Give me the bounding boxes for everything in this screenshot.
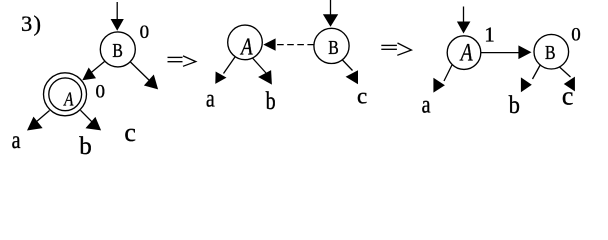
wire B1 to c	[130, 62, 152, 83]
arrowhead A1-a	[27, 117, 43, 131]
svg-text:A: A	[459, 39, 473, 66]
svg-text:b: b	[266, 88, 276, 115]
svg-text:B: B	[545, 43, 556, 64]
arrowhead A1-b	[86, 117, 102, 130]
svg-text:b: b	[509, 92, 520, 119]
svg-text:B: B	[328, 38, 339, 59]
wire B3 to b	[533, 65, 541, 79]
arrowhead B3-c	[564, 77, 575, 92]
svg-text:A: A	[239, 33, 253, 60]
node A1 inner circle	[49, 78, 82, 111]
arrowhead B2-c	[346, 70, 358, 84]
arrowhead B1-c	[144, 75, 158, 90]
arrowhead A3-B3	[518, 45, 531, 59]
svg-text:c: c	[124, 118, 136, 147]
node A2 circle	[228, 25, 263, 60]
wire incoming arrow to node B2	[330, 0, 332, 16]
arrowhead incoming A3	[457, 22, 471, 34]
wire A2 to b	[253, 58, 267, 73]
arrowhead A3-a	[433, 78, 445, 93]
node B1 circle	[100, 32, 135, 67]
arrowhead incoming B2	[323, 14, 338, 26]
svg-text:0: 0	[96, 81, 106, 102]
implies arrow 1: chevron	[183, 56, 196, 66]
node B2 circle	[314, 28, 349, 63]
svg-text:1: 1	[484, 22, 495, 46]
svg-text:c: c	[357, 84, 367, 109]
node A1 outer circle (double)	[44, 73, 87, 116]
wire B3 to c	[560, 67, 571, 77]
arrowhead dashed B2-A2	[263, 38, 275, 50]
svg-text:0: 0	[571, 24, 581, 45]
svg-text:A: A	[63, 88, 74, 110]
svg-text:0: 0	[140, 22, 150, 43]
arrowhead B1-A1	[82, 68, 96, 81]
arrowhead A2-b	[258, 70, 272, 85]
svg-text:b: b	[79, 133, 92, 160]
wire incoming arrow to node A3	[463, 7, 465, 23]
wire A3 to a	[444, 65, 452, 82]
svg-text:a: a	[422, 91, 431, 118]
wire A1 to a	[29, 111, 50, 129]
svg-text:a: a	[206, 86, 215, 113]
svg-text:c: c	[562, 82, 574, 111]
wire B1 to A1	[87, 62, 105, 77]
dashed wire B2 to A2	[276, 44, 314, 46]
svg-text:a: a	[12, 127, 21, 154]
wire B2 to c	[342, 60, 353, 71]
arrowhead B3-b	[521, 77, 532, 92]
wire A1 to b	[81, 110, 99, 128]
implies arrow 2: chevron	[397, 43, 411, 55]
svg-text:3): 3)	[21, 11, 42, 36]
implies arrow 2: equals bars	[381, 44, 397, 46]
wire incoming arrow to node B1	[116, 2, 118, 20]
arrowhead A2-a	[215, 72, 226, 84]
node A3 circle	[447, 36, 481, 70]
wire A3 to B3	[481, 52, 522, 54]
node B3 circle	[534, 34, 569, 69]
implies arrow 1: equals bars	[168, 56, 183, 58]
wire A2 to a	[224, 56, 236, 73]
arrowhead incoming B1	[111, 19, 124, 31]
svg-text:B: B	[112, 41, 123, 62]
